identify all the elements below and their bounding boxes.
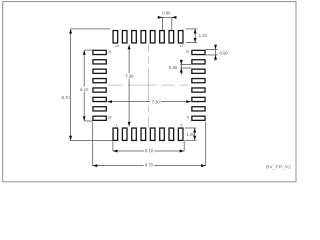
dimension 9.70 text xyxy=(144,163,155,168)
dimension 6.10 bottom line xyxy=(113,150,184,152)
pad pin 4 (bottom row) xyxy=(141,128,146,140)
dimension 0.50 text xyxy=(220,52,228,55)
pad pin 18 (top row) xyxy=(169,31,174,43)
dimension 6.10 bottom text xyxy=(144,148,154,153)
pin label 25 xyxy=(108,51,112,53)
pin label 8 xyxy=(181,124,183,126)
dimension 1.20 bottom text xyxy=(187,133,194,136)
pad pin 32 (left column) xyxy=(93,116,106,120)
pad pin 19 (top row) xyxy=(160,31,165,43)
dimension 0.80 text xyxy=(162,11,170,14)
pad pin 28 (left column) xyxy=(93,79,106,83)
dimension 6.10 top extension xyxy=(84,49,92,51)
pad pin 17 (top row) xyxy=(178,31,183,43)
dimension 8.70 top extension xyxy=(71,28,111,30)
pad pin 25 (left column) xyxy=(93,50,106,54)
pad pin 9 (right column) xyxy=(192,116,205,120)
dimension 0.80 line xyxy=(158,16,177,18)
pad pin 21 (top row) xyxy=(141,31,146,43)
dimension 0.50 extension lines xyxy=(206,48,218,50)
dimension 9.70 extensions xyxy=(92,121,94,165)
pad pin 26 (left column) xyxy=(93,60,106,64)
pin label 1 xyxy=(115,124,117,126)
pad pin 31 (left column) xyxy=(93,107,106,111)
pad pin 22 (top row) xyxy=(132,31,137,43)
dimension 1.20 top text xyxy=(199,34,207,37)
dimension 7.30 vertical line xyxy=(128,45,130,127)
dimension 0.30 text xyxy=(169,66,177,69)
horizontal centerline xyxy=(107,84,122,86)
pad pin 7 (bottom row) xyxy=(169,128,174,140)
dimension 6.10 bottom extension xyxy=(84,120,92,122)
pad pin 14 (right column) xyxy=(192,69,205,73)
dimension 0.30 extension lines xyxy=(180,64,191,66)
pad pin 2 (bottom row) xyxy=(122,128,127,140)
pad pin 16 (right column) xyxy=(192,50,205,54)
pad pin 29 (left column) xyxy=(93,88,106,92)
pad pin 27 (left column) xyxy=(93,69,106,73)
pin label 17 xyxy=(180,45,183,47)
pad pin 24 (top row) xyxy=(113,31,118,43)
dimension 7.30 horizontal text xyxy=(150,99,161,104)
dimension 6.10 text xyxy=(79,87,89,92)
dimension 9.70 line xyxy=(93,165,206,167)
dimension 1.20 top extension lines xyxy=(186,28,198,30)
pad pin 6 (bottom row) xyxy=(160,128,165,140)
pin label 16 xyxy=(186,50,189,52)
dimension 7.30 vertical text xyxy=(124,73,134,78)
figure reference BV_FP_V2 xyxy=(267,165,291,169)
dimension 1.20 top arrow line xyxy=(194,29,196,43)
pad pin 20 (top row) xyxy=(150,31,155,43)
dimension 0.80 extension lines xyxy=(161,17,163,29)
pad pin 13 (right column) xyxy=(192,79,205,83)
pad pin 1 (bottom row) xyxy=(113,128,118,140)
pad pin 10 (right column) xyxy=(192,107,205,111)
dimension 0.30 arrows xyxy=(180,60,182,75)
pin label 9 xyxy=(187,116,189,118)
dimension 8.70 bottom extension xyxy=(70,139,113,141)
pad pin 23 (top row) xyxy=(122,31,127,43)
pad pin 15 (right column) xyxy=(192,60,205,64)
border frame xyxy=(3,2,296,182)
dimension 8.70 text xyxy=(61,95,70,100)
dimension 1.20 bottom extension lines xyxy=(185,127,197,129)
dimension 1.20 bottom arrow line xyxy=(194,128,196,140)
dimension 7.30 horizontal line xyxy=(107,101,191,103)
pad pin 5 (bottom row) xyxy=(150,128,155,140)
dimension 8.70 line xyxy=(70,29,72,140)
dimension 0.50 arrows xyxy=(215,46,217,61)
pad pin 30 (left column) xyxy=(93,97,106,101)
pin label 32 xyxy=(108,116,112,118)
dimension 6.10 bottom extensions xyxy=(112,141,114,151)
pad pin 11 (right column) xyxy=(192,97,205,101)
pad pin 8 (bottom row) xyxy=(178,128,183,140)
pad pin 12 (right column) xyxy=(192,88,205,92)
vertical centerline xyxy=(148,45,150,52)
dimension 6.10 line xyxy=(83,50,85,121)
pin label 24 xyxy=(115,45,119,47)
pad pin 3 (bottom row) xyxy=(132,128,137,140)
